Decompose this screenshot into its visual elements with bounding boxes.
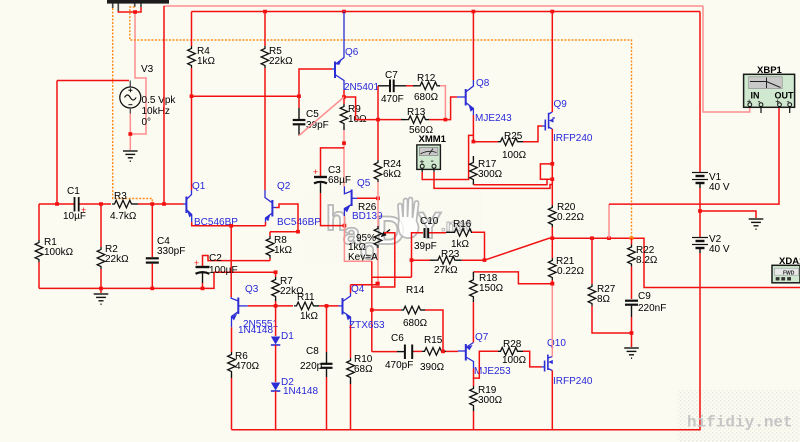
svg-text:22kΩ: 22kΩ bbox=[105, 254, 129, 265]
resistor R10 bbox=[350, 325, 352, 358]
wire Q9 source jog bbox=[540, 164, 552, 179]
resistor R6 bbox=[231, 327, 233, 352]
svg-text:40 V: 40 V bbox=[709, 182, 730, 193]
diode D1 bbox=[275, 306, 277, 336]
ground below C9 bbox=[624, 348, 639, 358]
wire supply rail V+ bbox=[192, 11, 701, 13]
resistor R24 bbox=[377, 120, 379, 160]
svg-text:330pF: 330pF bbox=[157, 246, 185, 257]
svg-text:R28: R28 bbox=[503, 339, 522, 350]
ground below V3 bbox=[123, 151, 138, 161]
capacitor C7 bbox=[378, 85, 390, 87]
svg-text:27kΩ: 27kΩ bbox=[434, 265, 458, 276]
wire tail down to Q3 bbox=[230, 226, 232, 297]
svg-text:39pF: 39pF bbox=[414, 241, 437, 252]
oscilloscope XSC1 partial body bbox=[107, 0, 169, 4]
svg-text:hifidiy.net: hifidiy.net bbox=[687, 414, 793, 432]
svg-text:470F: 470F bbox=[381, 94, 404, 105]
wire Q5 base to R24 bottom bbox=[357, 197, 378, 199]
resistor R15 bbox=[414, 350, 423, 352]
potentiometer R26 bbox=[377, 198, 379, 228]
resistor R23 bbox=[412, 259, 431, 261]
wire Q5 emitter down bbox=[344, 216, 371, 261]
battery V2 bbox=[699, 211, 701, 237]
wire V2 minus down to bottom rail bbox=[232, 253, 701, 430]
svg-text:300Ω: 300Ω bbox=[478, 169, 503, 180]
svg-text:100Ω: 100Ω bbox=[502, 355, 527, 366]
svg-text:ZTX653: ZTX653 bbox=[349, 320, 385, 331]
svg-text:10kHz: 10kHz bbox=[142, 106, 170, 117]
watermark hand glyph bbox=[398, 198, 419, 239]
node junction scope bbox=[133, 10, 137, 14]
resistor R7 bbox=[275, 272, 277, 277]
svg-text:39pF: 39pF bbox=[306, 120, 329, 131]
wire R9 top jog to C7 node bbox=[344, 97, 378, 120]
svg-text:R14: R14 bbox=[406, 285, 425, 296]
svg-text:Q10: Q10 bbox=[547, 338, 566, 349]
wire scope A to junction bbox=[118, 7, 141, 12]
capacitor C6 bbox=[372, 351, 397, 353]
svg-text:0.22Ω: 0.22Ω bbox=[557, 266, 584, 277]
svg-text:2N5401: 2N5401 bbox=[344, 82, 379, 93]
resistor R2 bbox=[100, 204, 102, 247]
svg-text:8Ω: 8Ω bbox=[597, 294, 611, 305]
svg-text:470pF: 470pF bbox=[385, 360, 413, 371]
svg-text:22kΩ: 22kΩ bbox=[269, 56, 293, 67]
svg-text:1kΩ: 1kΩ bbox=[300, 311, 319, 322]
resistor R25 bbox=[473, 141, 498, 143]
capacitor C5 bbox=[298, 96, 300, 108]
capacitor C2 electrolytic bbox=[203, 256, 271, 267]
svg-text:0°: 0° bbox=[142, 117, 152, 128]
svg-text:+: + bbox=[313, 167, 318, 177]
wire orange scope pin3 long probe to output node bbox=[130, 7, 632, 238]
svg-text:1N4148: 1N4148 bbox=[283, 386, 318, 397]
resistor R18 bbox=[472, 272, 474, 277]
resistor R22 bbox=[631, 238, 633, 244]
svg-text:Q8: Q8 bbox=[476, 78, 490, 89]
watermark halftone texture bbox=[678, 390, 800, 442]
wire V3 plus column down to C1 line bbox=[56, 81, 58, 205]
svg-text:C8: C8 bbox=[306, 346, 319, 357]
svg-text:680Ω: 680Ω bbox=[414, 92, 439, 103]
wire emitter tie line bbox=[192, 222, 266, 226]
svg-text:470Ω: 470Ω bbox=[235, 361, 260, 372]
svg-text:390Ω: 390Ω bbox=[420, 362, 445, 373]
ground symbol left bbox=[100, 288, 102, 293]
svg-text:220nF: 220nF bbox=[638, 303, 666, 314]
svg-text:220p: 220p bbox=[300, 361, 323, 372]
capacitor C9 bbox=[625, 300, 638, 302]
wire junction to V3 minus (loop) bbox=[130, 12, 146, 134]
svg-text:Q5: Q5 bbox=[357, 178, 371, 189]
svg-text:R23: R23 bbox=[441, 249, 460, 260]
svg-text:R12: R12 bbox=[417, 73, 436, 84]
capacitor C4 bbox=[151, 204, 153, 257]
resistor R1 bbox=[38, 204, 40, 240]
svg-text:8.2Ω: 8.2Ω bbox=[636, 255, 658, 266]
wire orange scope pin1 probe to R3 right node bbox=[113, 8, 153, 204]
node V3 minus bbox=[128, 132, 132, 136]
wire ground bus left bbox=[39, 272, 276, 288]
resistor R28 bbox=[498, 348, 518, 356]
svg-text:150Ω: 150Ω bbox=[479, 283, 504, 294]
svg-text:MJE243: MJE243 bbox=[475, 113, 512, 124]
svg-text:1kΩ: 1kΩ bbox=[197, 56, 216, 67]
battery V1 bbox=[699, 171, 701, 174]
svg-text:68Ω: 68Ω bbox=[354, 364, 373, 375]
svg-text:1kΩ: 1kΩ bbox=[274, 245, 293, 256]
svg-text:Q7: Q7 bbox=[475, 332, 489, 343]
resistor R16 bbox=[446, 231, 452, 233]
resistor R27 bbox=[591, 238, 593, 284]
svg-text:C2: C2 bbox=[209, 253, 222, 264]
svg-text:4.7kΩ: 4.7kΩ bbox=[110, 211, 137, 222]
transistor Q6 PNP bbox=[332, 12, 344, 91]
transistor Q4 bbox=[339, 293, 351, 325]
svg-text:0.5 Vpk: 0.5 Vpk bbox=[142, 95, 177, 106]
wire input line bbox=[39, 203, 74, 205]
capacitor C1 bbox=[75, 197, 87, 215]
svg-text:C5: C5 bbox=[306, 109, 319, 120]
svg-text:R11: R11 bbox=[297, 292, 315, 303]
resistor R21 bbox=[551, 238, 553, 258]
svg-text:R13: R13 bbox=[407, 107, 426, 118]
wire Q1 collector to Q6 base bus bbox=[192, 69, 333, 96]
svg-text:1N4148: 1N4148 bbox=[238, 325, 273, 336]
svg-text:100kΩ: 100kΩ bbox=[44, 247, 74, 258]
resistor R17 bbox=[472, 156, 474, 160]
wire Q3 base / R11 line bbox=[248, 305, 293, 307]
svg-text:FWD: FWD bbox=[783, 271, 795, 277]
wire XMM minus across bbox=[434, 172, 552, 188]
wire feedback drop to Q1 base line bbox=[163, 6, 165, 204]
wire V3 minus down bbox=[129, 114, 131, 151]
ground mid right bbox=[749, 219, 764, 229]
wire V3 plus rail bbox=[57, 80, 129, 82]
resistor R9 bbox=[343, 90, 345, 104]
wire C5 diagonal to R9 top bbox=[299, 97, 344, 136]
wire rail to XBP1 IN bbox=[703, 6, 750, 112]
transistor Q5 (faces left) bbox=[344, 187, 357, 217]
svg-text:6kΩ: 6kΩ bbox=[383, 169, 402, 180]
source V3 bbox=[120, 81, 141, 114]
svg-text:V3: V3 bbox=[141, 64, 154, 75]
resistor R19 bbox=[473, 378, 475, 386]
wire pot wiper line and C10 bbox=[372, 276, 412, 278]
svg-text:IRFP240: IRFP240 bbox=[553, 376, 593, 387]
svg-text:Q3: Q3 bbox=[245, 284, 259, 295]
oscilloscope pins bbox=[113, 4, 141, 12]
watermark haoDIY.net background logo bbox=[326, 200, 472, 266]
svg-text:40 V: 40 V bbox=[709, 244, 730, 255]
resistor R3 bbox=[112, 200, 132, 208]
wire R18 top to drain node bbox=[473, 272, 552, 284]
svg-text:680Ω: 680Ω bbox=[403, 318, 428, 329]
svg-text:Q1: Q1 bbox=[192, 181, 206, 192]
node dots input bbox=[55, 202, 59, 206]
capacitor C3 electrolytic bbox=[321, 148, 345, 176]
svg-text:Q2: Q2 bbox=[277, 181, 291, 192]
svg-text:C10: C10 bbox=[420, 216, 439, 227]
wire C7 left down to R13 line bbox=[377, 86, 379, 120]
wire XMM plus to Q8 emitter node bbox=[422, 135, 473, 179]
svg-text:Q6: Q6 bbox=[345, 47, 359, 58]
wire V1 minus to ground bbox=[700, 211, 756, 218]
svg-text:Q9: Q9 bbox=[554, 99, 568, 110]
resistor R8 bbox=[266, 236, 274, 258]
transistor Q2 (mirrored) bbox=[265, 190, 276, 222]
svg-text:C9: C9 bbox=[638, 291, 651, 302]
svg-text:Q4: Q4 bbox=[351, 284, 365, 295]
resistor R14 bbox=[372, 309, 401, 311]
svg-text:XMM1: XMM1 bbox=[419, 134, 447, 145]
svg-text:300Ω: 300Ω bbox=[478, 395, 503, 406]
resistor R13 bbox=[401, 119, 406, 121]
svg-text:10µF: 10µF bbox=[63, 211, 86, 222]
svg-text:R15: R15 bbox=[424, 335, 443, 346]
wire feedback rail top bbox=[164, 5, 703, 7]
svg-text:D1: D1 bbox=[281, 331, 294, 342]
resistor R5 bbox=[261, 46, 269, 68]
svg-text:IRFP240: IRFP240 bbox=[553, 133, 593, 144]
resistor R12 bbox=[406, 85, 413, 87]
svg-text:R16: R16 bbox=[453, 219, 472, 230]
resistor R4 bbox=[188, 46, 196, 68]
svg-text:C6: C6 bbox=[391, 333, 404, 344]
transistor Q1 bbox=[184, 190, 192, 222]
svg-text:0.22Ω: 0.22Ω bbox=[557, 212, 584, 223]
wire Q2 base to divider bbox=[276, 204, 298, 232]
capacitor C8 bbox=[326, 306, 328, 352]
knot verticals bbox=[371, 261, 373, 351]
wire output node line bbox=[552, 238, 800, 287]
diode D2 bbox=[271, 383, 280, 391]
svg-text:100Ω: 100Ω bbox=[502, 150, 527, 161]
svg-text:R3: R3 bbox=[114, 191, 127, 202]
transistor Q7 PNP (faces right) bbox=[458, 343, 474, 369]
svg-text:BC546BP: BC546BP bbox=[277, 217, 321, 228]
mosfet Q10 IRFP240 bbox=[542, 355, 553, 372]
wire Q7 collector, R28 branch bbox=[474, 351, 499, 378]
svg-text:R25: R25 bbox=[504, 131, 523, 142]
svg-text:100µF: 100µF bbox=[209, 265, 238, 276]
svg-text:C7: C7 bbox=[385, 70, 398, 81]
svg-text:68µF: 68µF bbox=[328, 175, 351, 186]
svg-text:C1: C1 bbox=[67, 186, 80, 197]
wire Q4 collector up to knot bbox=[350, 285, 352, 293]
wire XBP OUT drop bbox=[608, 204, 610, 238]
transistor Q3 (faces left) bbox=[231, 297, 248, 327]
svg-text:+: + bbox=[194, 258, 199, 268]
mosfet Q9 IRFP240 bbox=[543, 112, 556, 131]
resistor R20 bbox=[551, 179, 553, 205]
transistor Q8 NPN bbox=[457, 80, 474, 115]
wire diagonal to output column bbox=[485, 238, 553, 260]
wire V1 plus column bbox=[699, 12, 701, 172]
